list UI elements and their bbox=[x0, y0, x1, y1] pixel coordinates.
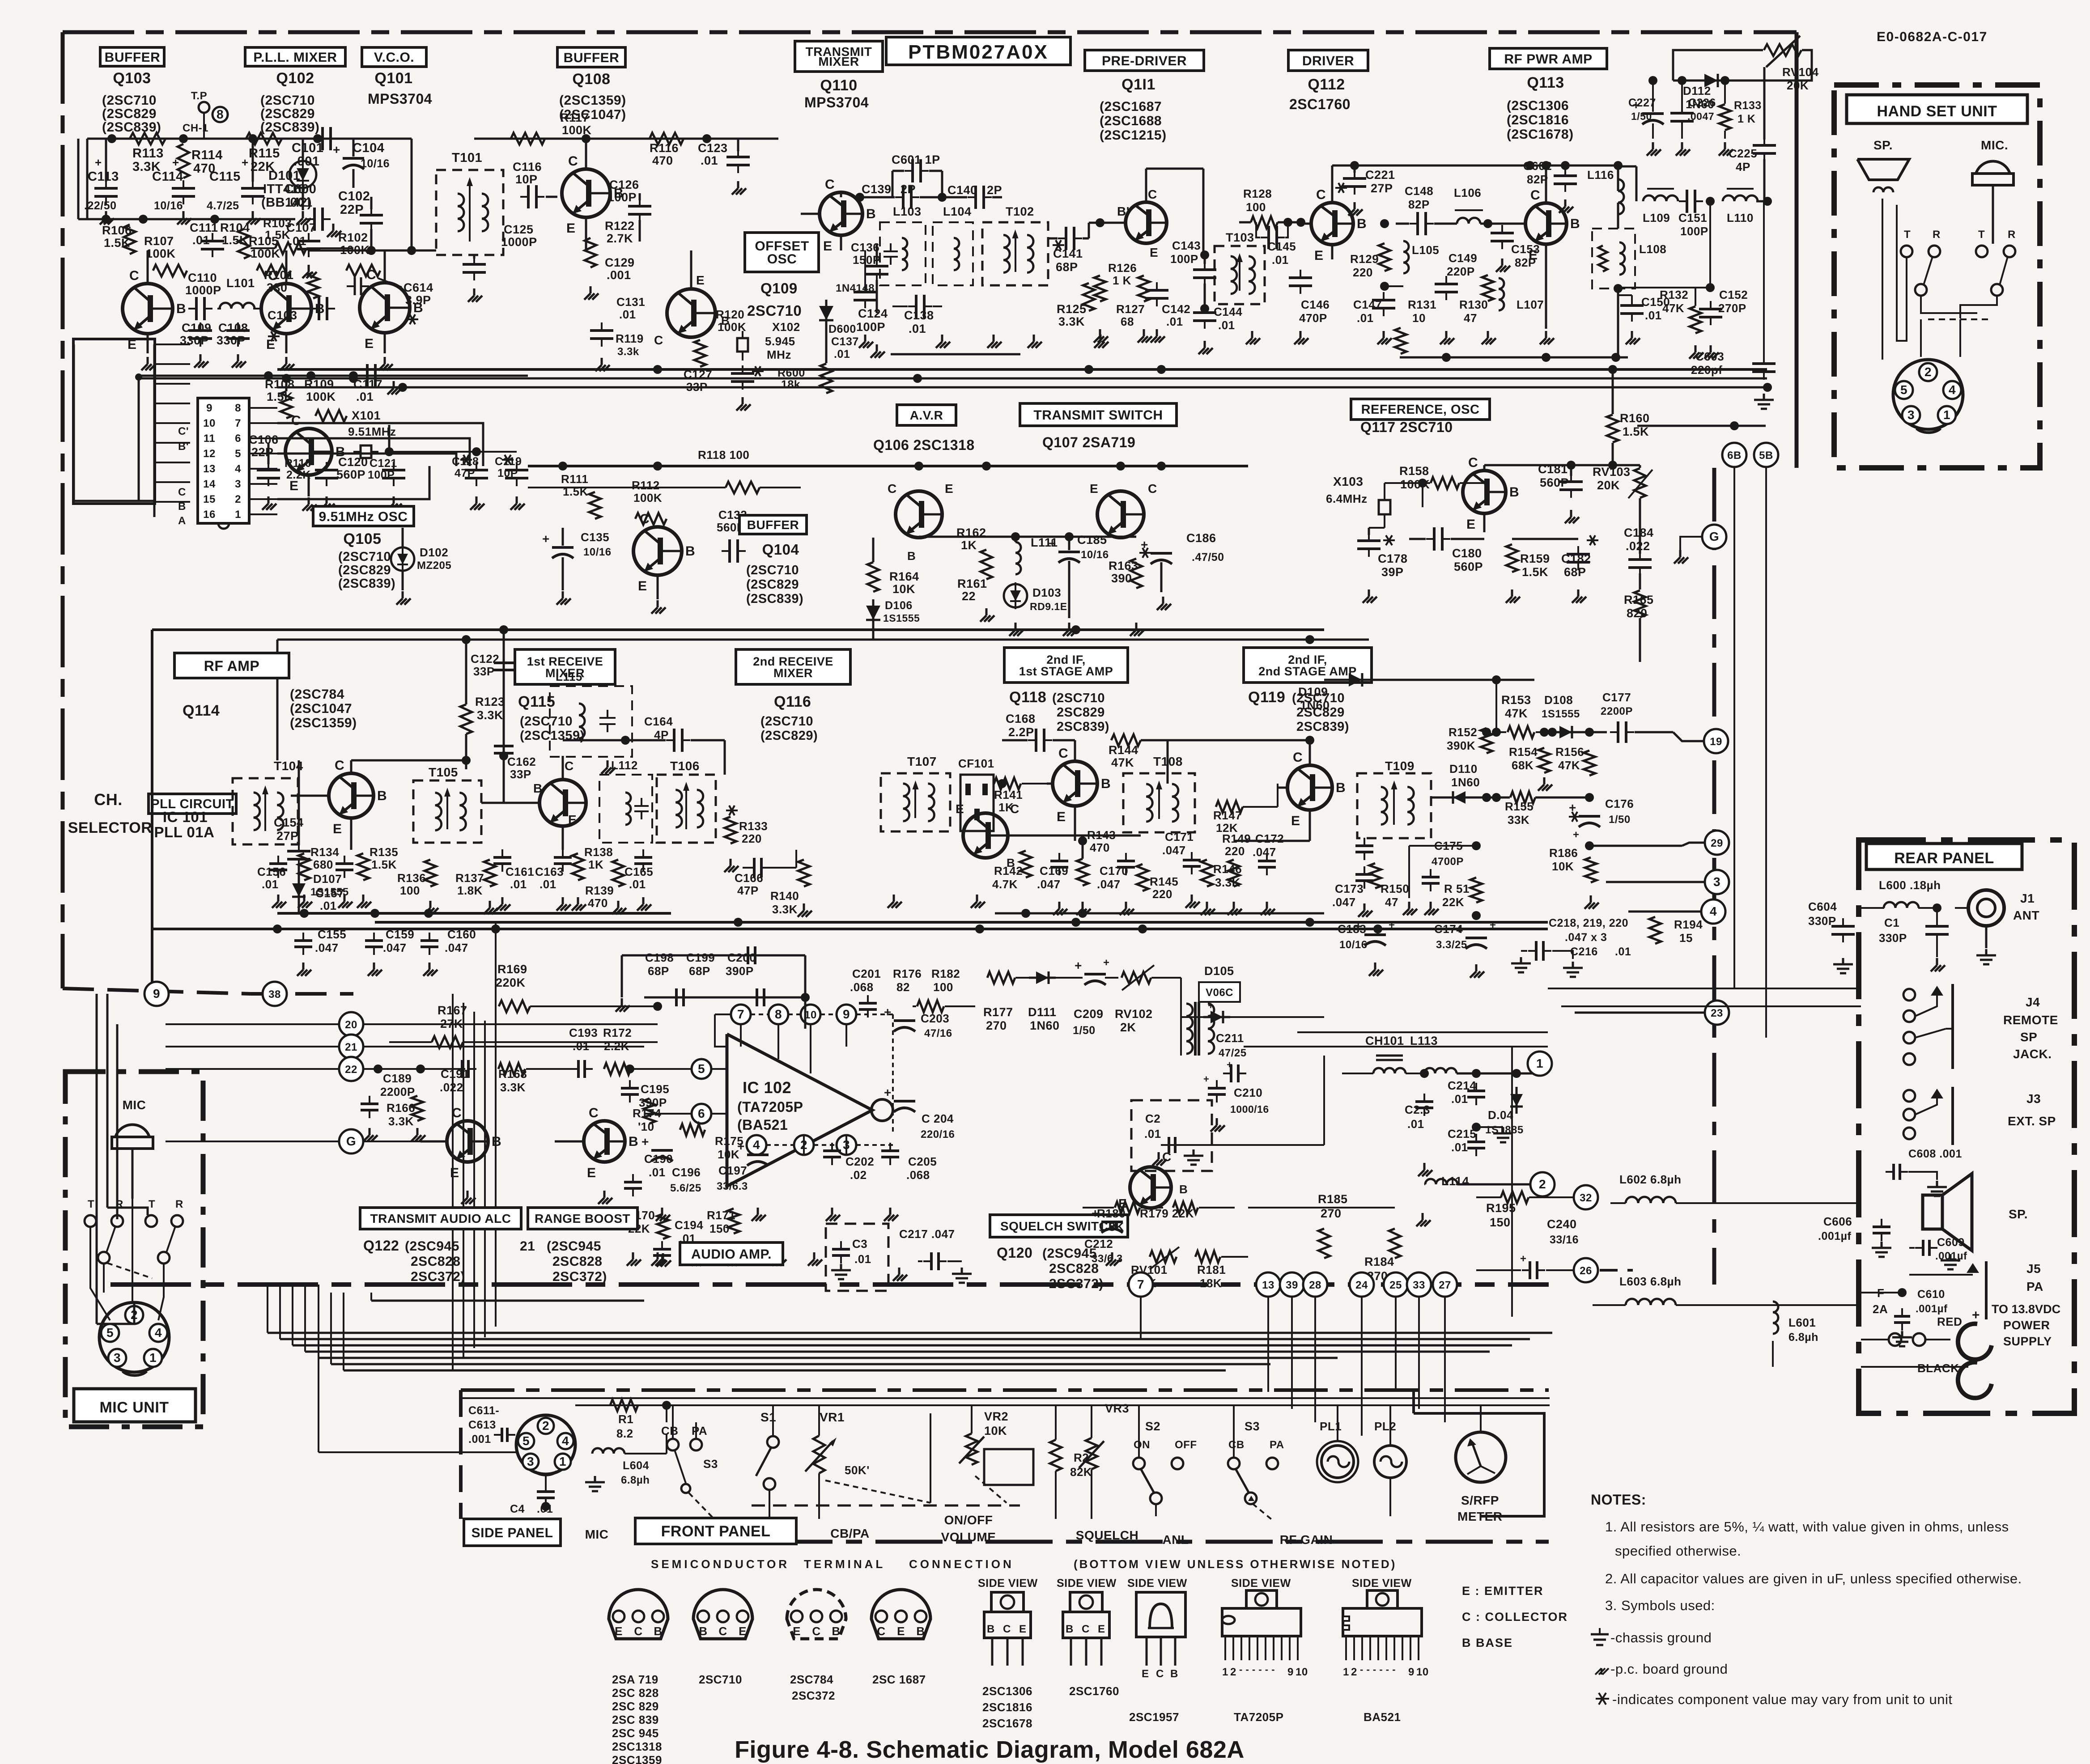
svg-text:+: + bbox=[1972, 1308, 1980, 1323]
svg-text:27: 27 bbox=[1439, 1279, 1451, 1291]
svg-text:R131: R131 bbox=[1408, 298, 1436, 311]
svg-text:R136: R136 bbox=[397, 871, 426, 885]
capacitor C101 .001 bbox=[292, 127, 339, 169]
grounds under q111 bbox=[1094, 329, 1165, 343]
svg-text:220P: 220P bbox=[1447, 265, 1475, 278]
capacitor C217 .047 bbox=[893, 1227, 972, 1283]
svg-text:- - - - - -: - - - - - - bbox=[1360, 1664, 1396, 1675]
svg-text:C4: C4 bbox=[510, 1503, 525, 1515]
svg-text:R130: R130 bbox=[1459, 298, 1488, 311]
svg-text:C115: C115 bbox=[209, 170, 241, 184]
svg-text:82P: 82P bbox=[1408, 198, 1430, 211]
svg-text:7: 7 bbox=[235, 417, 241, 429]
capacitor C124 100P bbox=[854, 250, 888, 348]
svg-text:220: 220 bbox=[742, 832, 762, 845]
svg-text:T108: T108 bbox=[1153, 755, 1183, 768]
svg-text:R127: R127 bbox=[1116, 302, 1145, 316]
svg-text:AUDIO AMP.: AUDIO AMP. bbox=[691, 1247, 772, 1262]
svg-text:C103: C103 bbox=[268, 309, 297, 322]
svg-text:B: B bbox=[492, 1134, 501, 1149]
capacitor C614 3.9P bbox=[347, 277, 433, 324]
svg-text:6: 6 bbox=[698, 1107, 705, 1120]
transistor Q121 bbox=[555, 1091, 638, 1204]
package 2SC1687 bbox=[871, 1590, 930, 1686]
svg-text:+: + bbox=[1075, 958, 1082, 972]
meter loop wires bbox=[1414, 1392, 1544, 1516]
svg-text:L104: L104 bbox=[943, 205, 972, 218]
svg-text:.01: .01 bbox=[537, 1503, 553, 1515]
svg-text:TRANSMIT AUDIO ALC: TRANSMIT AUDIO ALC bbox=[370, 1212, 511, 1225]
svg-text:SIDE VIEW: SIDE VIEW bbox=[978, 1577, 1038, 1590]
left bus to circle 9 bbox=[63, 988, 251, 994]
svg-text:R116: R116 bbox=[650, 141, 679, 155]
package 2SC784 2SC372 bbox=[787, 1590, 846, 1702]
svg-text:R167: R167 bbox=[438, 1004, 467, 1017]
transistor Q116 bbox=[956, 802, 1141, 869]
svg-text:C226: C226 bbox=[1688, 97, 1716, 109]
svg-text:B: B bbox=[377, 789, 387, 803]
svg-text:3.3/25: 3.3/25 bbox=[1436, 939, 1467, 951]
svg-text:L109: L109 bbox=[1643, 211, 1670, 225]
svg-text:R147: R147 bbox=[1213, 809, 1242, 822]
svg-text:B: B bbox=[176, 301, 186, 316]
svg-text:C: C bbox=[589, 1106, 599, 1120]
svg-text:C157: C157 bbox=[315, 886, 344, 900]
handset SP label bbox=[1873, 138, 1893, 152]
svg-text:82P: 82P bbox=[1515, 256, 1536, 269]
circled 3 bbox=[1606, 870, 1729, 894]
svg-text:100K: 100K bbox=[633, 491, 662, 505]
svg-text:+: + bbox=[1103, 957, 1110, 969]
bottom bus stack bbox=[268, 1301, 1552, 1370]
resistor R146 3.3K bbox=[1201, 807, 1242, 915]
svg-text:E: E bbox=[1150, 246, 1158, 259]
svg-text:SELECTOR: SELECTOR bbox=[68, 819, 153, 836]
svg-text:C': C' bbox=[178, 425, 189, 437]
svg-text:C: C bbox=[654, 333, 663, 347]
svg-text:C603: C603 bbox=[1695, 350, 1724, 363]
capacitor C191 .022 bbox=[440, 1060, 476, 1094]
svg-text:1000P: 1000P bbox=[501, 235, 537, 249]
svg-text:E: E bbox=[365, 336, 374, 351]
svg-text:R155: R155 bbox=[1505, 800, 1534, 813]
diode D112 1N60 bbox=[1673, 74, 1745, 111]
svg-text:R104: R104 bbox=[220, 221, 250, 234]
svg-text:C190: C190 bbox=[644, 1152, 673, 1166]
svg-text:B: B bbox=[866, 207, 876, 221]
svg-text:E: E bbox=[450, 1166, 459, 1180]
svg-text:C198: C198 bbox=[645, 951, 674, 964]
svg-text:13: 13 bbox=[1262, 1279, 1274, 1291]
diode D106 1S1555 bbox=[866, 599, 920, 640]
svg-text:2SC710: 2SC710 bbox=[747, 302, 802, 319]
svg-text:MPS3704: MPS3704 bbox=[804, 94, 869, 110]
svg-text:Q104: Q104 bbox=[762, 541, 799, 558]
svg-text:1: 1 bbox=[559, 1454, 566, 1468]
svg-text:B: B bbox=[1101, 776, 1111, 791]
block label 2nd IF 2nd STAGE AMP bbox=[1244, 648, 1372, 734]
capacitor C136 150P bbox=[851, 241, 888, 358]
squelch area wires bbox=[1083, 1056, 1324, 1225]
svg-text:PLL 01A: PLL 01A bbox=[154, 824, 215, 840]
svg-text:10K: 10K bbox=[984, 1424, 1007, 1437]
svg-text:C: C bbox=[291, 413, 301, 428]
resistor R167 27K bbox=[389, 1004, 658, 1048]
svg-text:R177: R177 bbox=[983, 1005, 1013, 1019]
svg-text:C203: C203 bbox=[921, 1012, 949, 1025]
svg-text:Q120: Q120 bbox=[997, 1245, 1032, 1261]
svg-text:47: 47 bbox=[1385, 895, 1398, 909]
svg-text:T109: T109 bbox=[1385, 759, 1415, 773]
svg-text:.01: .01 bbox=[320, 899, 337, 912]
svg-text:9.51MHz OSC: 9.51MHz OSC bbox=[319, 509, 408, 524]
svg-text:C137: C137 bbox=[831, 335, 859, 348]
capacitor C166 47P bbox=[735, 850, 796, 897]
svg-text:B: B bbox=[1336, 780, 1346, 795]
block label V.C.O. Q101 bbox=[362, 47, 432, 107]
svg-text:C114: C114 bbox=[152, 170, 183, 184]
svg-text:R1: R1 bbox=[618, 1412, 633, 1426]
bus y2042 right part bbox=[995, 909, 1324, 918]
svg-text:C205: C205 bbox=[908, 1155, 937, 1168]
pot VR1 50K bbox=[805, 1404, 930, 1519]
resistor R166 3.3K bbox=[387, 1069, 425, 1141]
svg-text:100K: 100K bbox=[146, 247, 176, 260]
svg-text:2. All capacitor values are gi: 2. All capacitor values are given in uF,… bbox=[1605, 1571, 2022, 1586]
svg-text:NOTES:: NOTES: bbox=[1591, 1492, 1646, 1508]
svg-text:100K: 100K bbox=[562, 123, 592, 137]
svg-text:Q114: Q114 bbox=[183, 702, 220, 719]
svg-text:C162: C162 bbox=[507, 755, 536, 768]
transistor Q102 bbox=[261, 250, 325, 353]
svg-text:C199: C199 bbox=[686, 951, 715, 964]
svg-text:C215: C215 bbox=[1448, 1127, 1476, 1141]
svg-text:C148: C148 bbox=[1405, 184, 1433, 198]
svg-text:E: E bbox=[615, 1624, 623, 1638]
svg-text:2.2K: 2.2K bbox=[604, 1039, 629, 1053]
crystal X103 6.4MHz bbox=[1326, 475, 1427, 528]
legend header bbox=[651, 1557, 1397, 1571]
NOTES heading bbox=[1591, 1492, 1646, 1508]
capacitor C240 33/16 bbox=[1476, 1217, 1579, 1279]
note 1 line1 bbox=[1605, 1519, 2009, 1535]
resistor R112 100K bbox=[632, 479, 667, 525]
capacitor C190 .01 bbox=[624, 1152, 673, 1266]
svg-text:D111: D111 bbox=[1028, 1005, 1057, 1019]
wire buses under vco bbox=[139, 371, 528, 501]
capacitor C169 .047 bbox=[1037, 841, 1068, 915]
svg-text:2: 2 bbox=[1924, 365, 1932, 379]
svg-text:+: + bbox=[333, 143, 340, 157]
wire refosc top bbox=[1484, 461, 1640, 470]
left bundle wires to mic unit bbox=[97, 994, 148, 1324]
svg-text:1000P: 1000P bbox=[185, 284, 221, 297]
ceramic filter CF101 bbox=[958, 757, 994, 908]
svg-text:1.8K: 1.8K bbox=[457, 884, 483, 897]
inductor L107 bbox=[1499, 277, 1544, 313]
resistor R161 22 bbox=[957, 577, 994, 622]
svg-text:D102: D102 bbox=[420, 546, 448, 559]
svg-text:.01: .01 bbox=[1357, 311, 1374, 325]
svg-text:C602: C602 bbox=[1523, 159, 1552, 173]
svg-text:SIDE VIEW: SIDE VIEW bbox=[1231, 1577, 1291, 1590]
svg-text:C 204: C 204 bbox=[922, 1112, 954, 1125]
capacitor C203 47/16 bbox=[884, 1005, 952, 1056]
svg-text:D110: D110 bbox=[1449, 762, 1478, 776]
svg-text:SIDE VIEW: SIDE VIEW bbox=[1057, 1577, 1117, 1590]
resistor R130 47 bbox=[1459, 224, 1496, 344]
svg-text:8: 8 bbox=[217, 107, 224, 121]
svg-text:R138: R138 bbox=[584, 845, 613, 859]
svg-text:SIDE VIEW: SIDE VIEW bbox=[1127, 1577, 1187, 1590]
svg-text:47/16: 47/16 bbox=[924, 1027, 952, 1039]
svg-text:SP.: SP. bbox=[2009, 1207, 2028, 1221]
svg-text:1N60: 1N60 bbox=[1300, 699, 1330, 712]
svg-text:15: 15 bbox=[1679, 931, 1693, 945]
capacitor C173 .047 bbox=[1332, 866, 1373, 917]
resistor R143 470 bbox=[1075, 828, 1116, 915]
svg-text:REAR PANEL: REAR PANEL bbox=[1894, 850, 1994, 867]
svg-text:100: 100 bbox=[933, 980, 953, 994]
svg-text:C: C bbox=[568, 154, 578, 169]
svg-text:220: 220 bbox=[1353, 266, 1373, 279]
svg-text:C120: C120 bbox=[338, 455, 368, 469]
svg-text:+: + bbox=[1203, 1073, 1209, 1085]
antenna filter L109 C151 L110 bbox=[1616, 166, 1772, 238]
handset 5 pin connector bbox=[1893, 360, 1963, 433]
svg-text:E: E bbox=[568, 813, 577, 827]
svg-text:4: 4 bbox=[753, 1138, 760, 1152]
svg-text:C610: C610 bbox=[1917, 1288, 1945, 1301]
svg-text:Q101: Q101 bbox=[374, 70, 412, 87]
PCB right border (dash-dot vertical) bbox=[1712, 468, 1716, 1285]
IC101 right staircase wires bbox=[277, 423, 483, 499]
svg-text:.01: .01 bbox=[619, 308, 636, 321]
capacitor C186 .47/50 bbox=[1139, 466, 1224, 610]
svg-text:.01: .01 bbox=[1166, 315, 1183, 328]
PCB main border right edge bbox=[1795, 32, 1799, 468]
transistor Q103 bbox=[123, 250, 186, 353]
svg-text:2: 2 bbox=[1351, 1666, 1357, 1678]
svg-text:68P: 68P bbox=[1056, 260, 1078, 274]
capacitor C176 1/50 bbox=[1569, 797, 1655, 850]
svg-text:OFF: OFF bbox=[1175, 1439, 1197, 1451]
svg-text:R112: R112 bbox=[632, 479, 660, 492]
capacitor C181 560P bbox=[1538, 462, 1583, 523]
svg-text:R: R bbox=[2008, 229, 2016, 241]
svg-text:.001: .001 bbox=[607, 268, 631, 282]
svg-text:1. All resistors are 5%, ¼ wat: 1. All resistors are 5%, ¼ watt, with va… bbox=[1605, 1519, 2009, 1535]
svg-text:C140: C140 bbox=[947, 183, 977, 197]
capacitor C197 33/6.3 bbox=[717, 1139, 769, 1221]
svg-text:C109: C109 bbox=[182, 321, 212, 335]
mic unit MIC label bbox=[123, 1098, 146, 1112]
svg-text:(2SC945: (2SC945 bbox=[547, 1239, 601, 1254]
label ON/OFF VOLUME bbox=[941, 1513, 996, 1544]
svg-text:2SC372): 2SC372) bbox=[1049, 1276, 1104, 1291]
long verticals to rear panel bbox=[1655, 988, 1766, 1305]
svg-text:14: 14 bbox=[203, 478, 216, 490]
svg-text:T104: T104 bbox=[274, 759, 303, 773]
svg-text:(2SC1306: (2SC1306 bbox=[1507, 98, 1569, 113]
svg-text:R: R bbox=[175, 1198, 183, 1210]
transistor Q110 bbox=[801, 177, 876, 254]
svg-text:D600: D600 bbox=[828, 323, 856, 335]
capacitor C109 330P bbox=[180, 321, 212, 368]
svg-text:2SC 1687: 2SC 1687 bbox=[872, 1673, 926, 1686]
label ANL bbox=[1162, 1533, 1189, 1547]
capacitor C110 1000P bbox=[185, 271, 221, 320]
capacitor C155 .047 bbox=[294, 913, 346, 976]
capacitor C196 5.6/25 bbox=[641, 1122, 701, 1221]
svg-text:T: T bbox=[1904, 229, 1911, 241]
svg-text:2nd STAGE AMP: 2nd STAGE AMP bbox=[1258, 665, 1357, 678]
svg-text:C: C bbox=[565, 759, 574, 773]
svg-text:Q109: Q109 bbox=[760, 280, 798, 297]
capacitor C122 33P bbox=[471, 652, 514, 678]
svg-text:(2SC710: (2SC710 bbox=[102, 93, 157, 108]
capacitor C145 .01 bbox=[1256, 222, 1296, 267]
resistor R182 100 bbox=[913, 967, 975, 1012]
resistor R180 1.8K bbox=[1083, 1202, 1163, 1234]
svg-text:(2SC829: (2SC829 bbox=[260, 106, 315, 121]
svg-text:68P: 68P bbox=[689, 964, 710, 978]
package 2SA719 group bbox=[609, 1590, 668, 1764]
svg-text:ON: ON bbox=[1134, 1439, 1150, 1451]
svg-text:38: 38 bbox=[268, 988, 281, 1001]
svg-text:C110: C110 bbox=[188, 271, 217, 284]
capacitor C127 33P bbox=[684, 365, 764, 411]
svg-text:L107: L107 bbox=[1517, 298, 1544, 311]
capacitor C212 33/6.3 bbox=[1084, 1204, 1125, 1266]
svg-text:MPS3704: MPS3704 bbox=[368, 91, 432, 107]
svg-text:1/50: 1/50 bbox=[1631, 110, 1652, 122]
transistor Q112 bbox=[1305, 165, 1367, 263]
svg-text:C221: C221 bbox=[1365, 168, 1395, 182]
capacitor C154 27P bbox=[274, 760, 310, 877]
svg-text:680: 680 bbox=[313, 858, 333, 871]
svg-text:R139: R139 bbox=[585, 884, 614, 897]
transistor Q106 bbox=[888, 466, 953, 563]
resistor R144 47K bbox=[1075, 734, 1168, 784]
svg-text:.01: .01 bbox=[854, 1252, 871, 1266]
svg-text:C145: C145 bbox=[1267, 240, 1296, 253]
svg-text:5: 5 bbox=[235, 448, 241, 460]
capacitor C153 82P bbox=[1491, 224, 1540, 272]
resistor R158 100K bbox=[1399, 464, 1484, 507]
transformer T102 bbox=[982, 205, 1048, 285]
transformer T104 bbox=[233, 759, 303, 844]
svg-text:Q113: Q113 bbox=[1527, 74, 1564, 91]
capacitor C608 .001 bbox=[1886, 1140, 1962, 1196]
capacitor C111 .01 bbox=[190, 221, 224, 257]
resistor R103 1.5K bbox=[251, 216, 353, 254]
svg-text:C173: C173 bbox=[1335, 882, 1364, 895]
svg-text:.01: .01 bbox=[262, 878, 279, 891]
svg-text:CH101: CH101 bbox=[1365, 1034, 1404, 1047]
pot RV102 2K bbox=[1115, 965, 1181, 1034]
svg-text:1/50: 1/50 bbox=[1609, 814, 1631, 826]
svg-text:A: A bbox=[178, 515, 186, 527]
inductor L600 .18uh bbox=[1861, 878, 1941, 908]
svg-text:3.3K: 3.3K bbox=[500, 1081, 526, 1094]
transistor Q108 bbox=[557, 139, 624, 250]
resistor R108 1.5K bbox=[265, 377, 295, 418]
svg-text:C125: C125 bbox=[504, 223, 534, 236]
resistor R140 3.3K bbox=[770, 859, 812, 917]
svg-text:(TA7205P: (TA7205P bbox=[737, 1099, 803, 1115]
svg-text:J3: J3 bbox=[2026, 1092, 2041, 1106]
inductor L114 bbox=[1424, 1175, 1534, 1188]
svg-text:3.3K: 3.3K bbox=[1058, 315, 1085, 328]
svg-text:C: C bbox=[718, 1624, 727, 1638]
block label TRANSMIT MIXER Q110 bbox=[795, 41, 883, 110]
diode D108 1S1555 bbox=[1542, 693, 1607, 738]
svg-text:47/25: 47/25 bbox=[1219, 1047, 1247, 1059]
svg-text:C200: C200 bbox=[727, 951, 756, 964]
IC102 pin6 bbox=[644, 1104, 711, 1124]
svg-text:8: 8 bbox=[775, 1007, 782, 1021]
resistor R162 1K bbox=[956, 466, 992, 579]
block label P.L.L. MIXER Q102 bbox=[245, 47, 345, 135]
resistor R131 10 bbox=[1395, 286, 1436, 357]
svg-text:1.5K: 1.5K bbox=[1522, 565, 1548, 579]
svg-text:.047: .047 bbox=[445, 941, 468, 954]
circled 23 bbox=[1575, 1001, 1729, 1025]
resistor R168 3.3K bbox=[475, 1063, 555, 1094]
svg-text:22K: 22K bbox=[1442, 895, 1464, 909]
svg-text:2SC829: 2SC829 bbox=[1057, 705, 1105, 720]
svg-text:E: E bbox=[945, 482, 953, 496]
squelch bus wires bbox=[1083, 913, 1548, 1056]
handset T R contacts left bbox=[1901, 229, 1977, 313]
svg-text:C143: C143 bbox=[1172, 239, 1201, 252]
svg-text:R176: R176 bbox=[893, 967, 922, 980]
svg-text:R117: R117 bbox=[560, 111, 589, 124]
resistor R120 100K bbox=[694, 308, 746, 367]
pilot lamp PL1 sym bbox=[1317, 1404, 1358, 1482]
svg-text:D112: D112 bbox=[1683, 84, 1711, 98]
svg-text:SP.: SP. bbox=[1873, 138, 1893, 152]
capacitor C132 560P bbox=[717, 508, 747, 563]
svg-text:2SC372): 2SC372) bbox=[552, 1269, 607, 1284]
capacitor C199 68P bbox=[686, 951, 715, 978]
circled 6B 5B bbox=[1637, 421, 1778, 1038]
capacitor C610 .001uf bbox=[1861, 1288, 1948, 1346]
transistor Q119 bbox=[1278, 740, 1346, 841]
svg-text:.47/50: .47/50 bbox=[1192, 551, 1224, 564]
transistor Q117 bbox=[1463, 455, 1519, 532]
capacitor C170 .047 bbox=[1097, 832, 1135, 915]
svg-text:Figure 4-8. Schematic Diagram,: Figure 4-8. Schematic Diagram, Model 682… bbox=[735, 1736, 1245, 1763]
svg-text:100K: 100K bbox=[306, 390, 336, 403]
svg-text:(2SC839): (2SC839) bbox=[260, 120, 319, 135]
svg-text:(2SC839): (2SC839) bbox=[746, 592, 803, 606]
capacitor C227 1/50 bbox=[1628, 76, 1673, 156]
capacitor C194 .01 bbox=[653, 1212, 703, 1264]
svg-text:C611-: C611- bbox=[468, 1404, 499, 1417]
svg-text:2200P: 2200P bbox=[1601, 705, 1633, 717]
switch S3 CB PA right bbox=[1228, 1404, 1284, 1521]
svg-text:6.8µh: 6.8µh bbox=[1788, 1331, 1818, 1344]
inductor L116 bbox=[1587, 161, 1624, 229]
svg-text:2K: 2K bbox=[1120, 1021, 1136, 1034]
REAR PANEL box bbox=[1859, 840, 2074, 1413]
svg-text:39: 39 bbox=[1286, 1279, 1298, 1291]
svg-text:POWER: POWER bbox=[2003, 1319, 2050, 1332]
svg-text:L113: L113 bbox=[1410, 1034, 1438, 1047]
svg-text:1S1885: 1S1885 bbox=[1485, 1124, 1524, 1136]
